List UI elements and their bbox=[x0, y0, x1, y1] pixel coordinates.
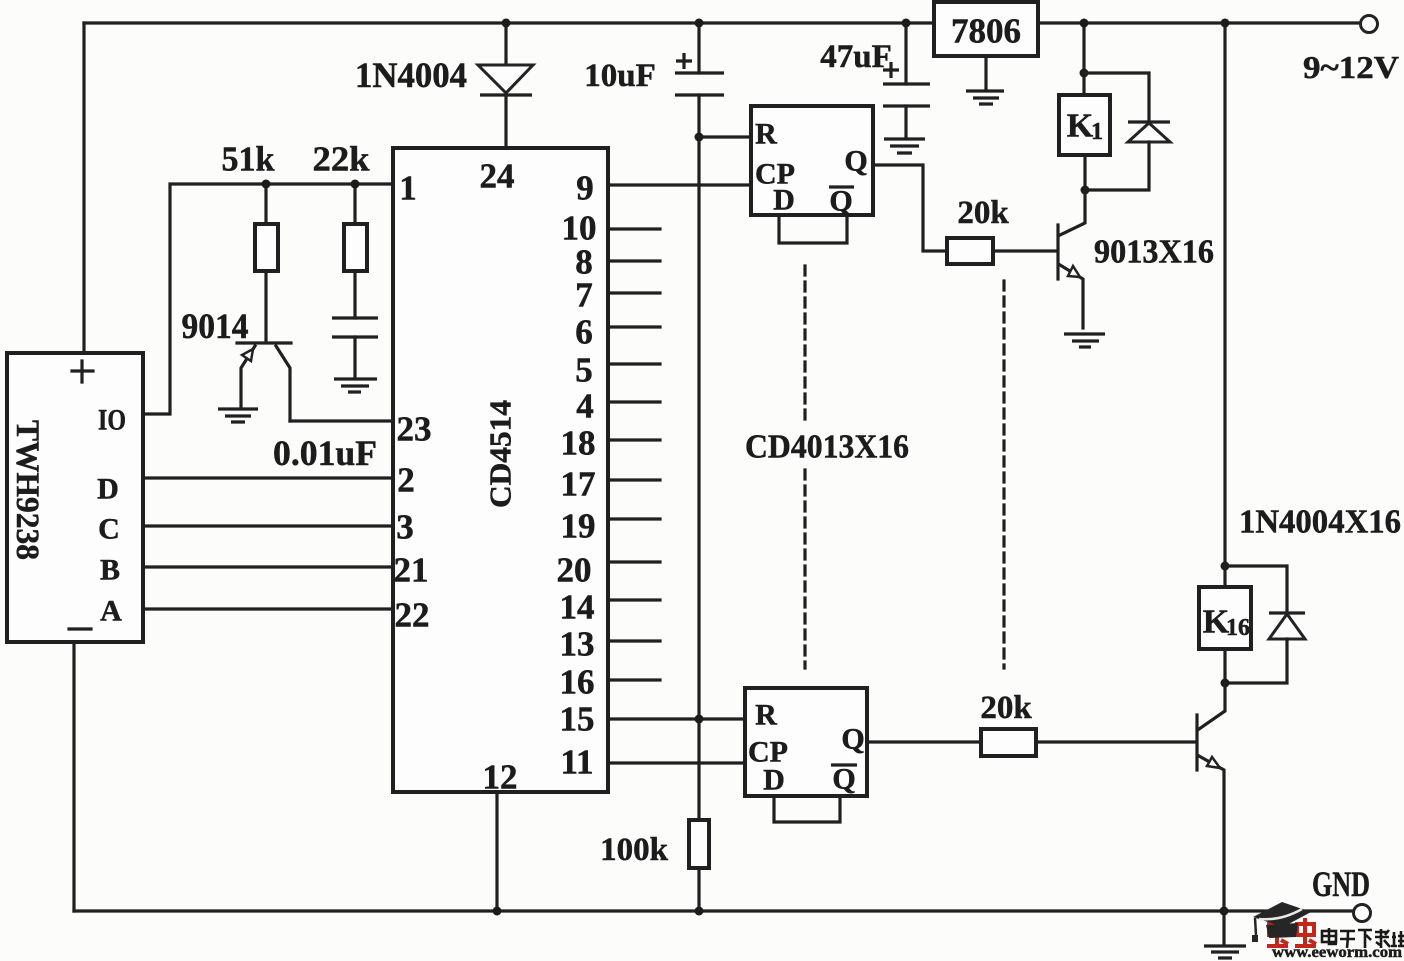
wire D to pin 2 bbox=[143, 476, 393, 479]
transistor Q1 9014 bbox=[182, 306, 292, 421]
node junction 51k top bbox=[262, 180, 271, 189]
ground under 7806 bbox=[984, 56, 987, 90]
ground under 9014 emitter bbox=[218, 409, 258, 422]
svg-text:19: 19 bbox=[561, 507, 596, 546]
node pin12 / ground rail bbox=[493, 907, 502, 916]
wire Q output to 20k (lower) bbox=[867, 740, 981, 743]
resistor R1 51k bbox=[222, 140, 279, 342]
svg-text:21: 21 bbox=[394, 551, 429, 590]
relay K16 bbox=[1199, 587, 1251, 649]
wire Q output to 20k (upper) bbox=[873, 165, 947, 251]
wire 9014 collector to pin 23 bbox=[290, 419, 393, 422]
svg-text:www.eeworm.com: www.eeworm.com bbox=[1272, 944, 1403, 961]
wire K1 branch from rail bbox=[1082, 23, 1085, 95]
transistor Q2 9013X16 bbox=[1058, 190, 1214, 328]
resistor R2 22k bbox=[313, 140, 371, 319]
node collector / K1 / diode bbox=[1081, 186, 1090, 195]
resistor R4 20k lower bbox=[980, 690, 1195, 756]
svg-text:9013X16: 9013X16 bbox=[1094, 234, 1214, 271]
node K1 / diode split bbox=[1080, 69, 1089, 78]
svg-text:R: R bbox=[755, 699, 777, 732]
svg-text:9~12V: 9~12V bbox=[1303, 49, 1399, 85]
svg-text:9: 9 bbox=[576, 169, 594, 208]
diode D2 freewheel bbox=[1085, 122, 1170, 190]
svg-text:18: 18 bbox=[561, 424, 596, 463]
node 47uF top bbox=[902, 19, 911, 28]
svg-text:12: 12 bbox=[483, 758, 518, 797]
terminal GND bbox=[1312, 864, 1371, 922]
svg-text:4: 4 bbox=[576, 387, 594, 426]
flip-flop U5 CD4013 lower bbox=[745, 688, 867, 797]
svg-text:TWH9238: TWH9238 bbox=[9, 420, 45, 560]
node collector / K16 / diode bbox=[1221, 679, 1230, 688]
node reset / lower R bbox=[695, 715, 704, 724]
svg-text:6: 6 bbox=[575, 313, 593, 352]
svg-text:0.01uF: 0.01uF bbox=[273, 433, 377, 473]
wire D to Qbar feedback (upper) bbox=[779, 215, 847, 243]
output pin stubs of CD4514 bbox=[608, 229, 660, 680]
svg-text:23: 23 bbox=[397, 410, 432, 449]
svg-text:13: 13 bbox=[560, 625, 595, 664]
node top rail / diode anode bbox=[502, 19, 511, 28]
svg-text:K: K bbox=[1067, 108, 1094, 145]
svg-text:1N4004: 1N4004 bbox=[355, 55, 467, 95]
svg-text:51k: 51k bbox=[222, 140, 276, 179]
wire right supply drop bbox=[1223, 23, 1226, 566]
node K1 branch top bbox=[1080, 19, 1089, 28]
wire C to pin 3 bbox=[143, 524, 393, 527]
node right drop top bbox=[1221, 19, 1230, 28]
wire pin 9 to CP of upper CD4013 bbox=[608, 183, 751, 186]
flip-flop U3 CD4013 upper bbox=[751, 106, 873, 218]
watermark text chongchong (red) bbox=[1267, 918, 1316, 947]
diode D1 1N4004 bbox=[355, 23, 533, 148]
svg-text:1N4004X16: 1N4004X16 bbox=[1239, 504, 1401, 541]
svg-text:100k: 100k bbox=[600, 832, 669, 868]
svg-text:A: A bbox=[100, 595, 122, 628]
svg-text:16: 16 bbox=[1226, 615, 1250, 641]
resistor R5 100k bbox=[600, 820, 709, 911]
capacitor C1 0.01uF bbox=[273, 318, 378, 473]
watermark text dianzixiazaizhan bbox=[1322, 928, 1404, 948]
watermark graduation cap logo bbox=[1252, 902, 1311, 942]
ground symbol below rail bbox=[1204, 911, 1246, 958]
wire K1 bottom to collector node bbox=[1083, 155, 1086, 190]
svg-text:IO: IO bbox=[98, 404, 126, 437]
svg-text:17: 17 bbox=[561, 465, 596, 504]
wire K16 bottom to collector node bbox=[1223, 649, 1226, 683]
wire reset to R of upper CD4013 bbox=[699, 135, 751, 138]
wire to D2 cathode bbox=[1084, 73, 1149, 122]
svg-text:9014: 9014 bbox=[182, 306, 249, 346]
svg-text:1: 1 bbox=[1091, 119, 1103, 145]
wire minus pin down to ground rail bbox=[72, 642, 75, 911]
svg-text:20k: 20k bbox=[957, 195, 1009, 231]
svg-text:CD4013X16: CD4013X16 bbox=[745, 429, 909, 466]
transistor Q3 (9013, lower) bbox=[1197, 683, 1225, 911]
ground under 47uF bbox=[884, 139, 925, 153]
ground under 0.01uF bbox=[334, 379, 377, 392]
svg-text:24: 24 bbox=[480, 157, 515, 196]
IC U1 TWH9238 bbox=[7, 353, 143, 642]
svg-text:1: 1 bbox=[399, 169, 417, 208]
wire reset line (10uF to 100k) bbox=[697, 95, 700, 820]
wire pin 12 to ground rail bbox=[495, 792, 498, 911]
node K16 / diode split bbox=[1221, 562, 1230, 571]
regulator U4 7806 bbox=[934, 2, 1038, 56]
wire D to Qbar feedback (lower) bbox=[774, 796, 840, 822]
wire B to pin 21 bbox=[143, 565, 393, 568]
svg-text:7: 7 bbox=[575, 276, 593, 315]
svg-text:C: C bbox=[98, 513, 120, 546]
svg-text:R: R bbox=[755, 118, 777, 151]
dashed line left (CD4013 repeat) bbox=[803, 266, 806, 668]
svg-text:D: D bbox=[763, 764, 785, 797]
svg-text:D: D bbox=[773, 184, 795, 217]
capacitor C3 47uF bbox=[820, 23, 930, 138]
svg-text:7806: 7806 bbox=[951, 12, 1021, 51]
diode D3 freewheel bbox=[1225, 613, 1305, 683]
svg-text:22k: 22k bbox=[313, 140, 371, 179]
svg-text:20: 20 bbox=[557, 551, 592, 590]
wire A to pin 22 bbox=[143, 607, 393, 610]
wire IO to CD4514 pin 1 bbox=[143, 184, 393, 414]
svg-text:22: 22 bbox=[395, 596, 430, 635]
wire top V+ rail bbox=[84, 21, 1360, 24]
dashed line right (repeat) bbox=[1002, 281, 1005, 668]
relay K1 bbox=[1059, 95, 1110, 155]
svg-text:Q: Q bbox=[832, 763, 855, 796]
svg-text:10uF: 10uF bbox=[584, 58, 656, 94]
terminal 9~12V bbox=[1303, 16, 1399, 86]
svg-text:5: 5 bbox=[575, 351, 593, 390]
svg-text:Q: Q bbox=[844, 145, 867, 178]
svg-text:GND: GND bbox=[1312, 864, 1370, 904]
svg-text:Q: Q bbox=[829, 185, 852, 218]
svg-text:14: 14 bbox=[560, 588, 595, 627]
svg-text:16: 16 bbox=[560, 663, 595, 702]
svg-text:CD4514: CD4514 bbox=[483, 400, 518, 508]
node reset / upper R bbox=[695, 133, 704, 142]
svg-text:D: D bbox=[97, 473, 119, 506]
svg-text:3: 3 bbox=[396, 508, 414, 547]
right side pin labels 9,10,8,7,6,5,4,18,17,19,20,14,13,16,15,11 bbox=[557, 169, 597, 782]
svg-text:Q: Q bbox=[841, 723, 864, 756]
svg-text:2: 2 bbox=[397, 461, 415, 500]
wire pin 15 to R of lower CD4013 bbox=[608, 717, 745, 720]
node 100k / ground rail bbox=[695, 907, 704, 916]
IC U2 CD4514 bbox=[393, 148, 608, 792]
svg-text:47uF: 47uF bbox=[820, 39, 892, 75]
ground under 9013 emitter bbox=[1064, 334, 1105, 347]
capacitor C2 10uF bbox=[584, 23, 724, 95]
node 10uF top bbox=[695, 19, 704, 28]
wire left supply drop to TWH9238 + pin bbox=[82, 23, 85, 353]
wire into K16 top bbox=[1223, 566, 1226, 587]
wire pin 11 to CP of lower CD4013 bbox=[608, 761, 745, 764]
node junction 22k top bbox=[351, 180, 360, 189]
svg-text:15: 15 bbox=[560, 700, 595, 739]
node emitter / ground rail bbox=[1220, 907, 1229, 916]
resistor R3 20k upper bbox=[947, 195, 1056, 264]
svg-text:11: 11 bbox=[560, 743, 593, 782]
svg-text:20k: 20k bbox=[980, 690, 1032, 726]
svg-text:B: B bbox=[100, 554, 120, 587]
wire to D3 cathode bbox=[1225, 566, 1287, 613]
wire GND bottom rail bbox=[74, 909, 1352, 912]
